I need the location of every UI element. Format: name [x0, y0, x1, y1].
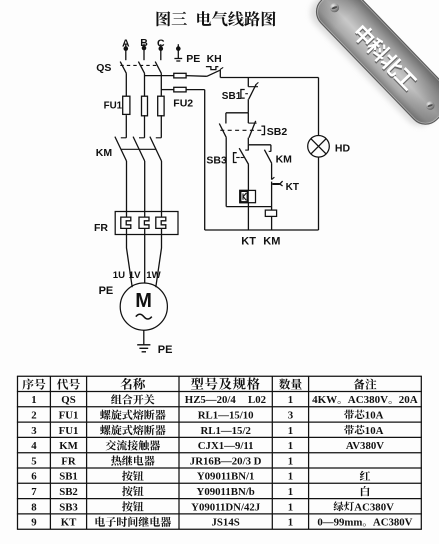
table header 数量 — [279, 379, 302, 390]
svg-text:1U: 1U — [113, 270, 125, 281]
wires FR to motor — [127, 228, 133, 287]
svg-text:QS: QS — [61, 394, 75, 406]
svg-text:HZ5—20/4: HZ5—20/4 — [185, 394, 237, 406]
row4 名称 交流接触器 — [106, 440, 161, 450]
row1 名称 组合开关 — [111, 394, 154, 404]
svg-text:C: C — [157, 38, 165, 50]
svg-text:M: M — [135, 290, 152, 312]
top rail wire — [220, 77, 318, 79]
svg-text:FU1: FU1 — [59, 425, 79, 437]
svg-text:QS: QS — [96, 62, 111, 74]
title 图三 电气线路图 — [157, 11, 276, 26]
wire SB2NC down to tee — [247, 138, 249, 145]
wire parallel split — [226, 112, 248, 114]
svg-text:5: 5 — [31, 455, 36, 467]
svg-text:HD: HD — [335, 142, 351, 154]
svg-text:Y09011BN/1: Y09011BN/1 — [197, 471, 255, 483]
svg-text:AV380V: AV380V — [346, 440, 384, 452]
badge screw bottom-right — [426, 101, 435, 110]
svg-text:AC380V: AC380V — [373, 517, 413, 529]
svg-text:7: 7 — [31, 486, 37, 498]
svg-text:SB2: SB2 — [267, 126, 288, 138]
svg-text:9: 9 — [31, 517, 37, 529]
svg-text:PE: PE — [186, 53, 200, 65]
table header 序号 — [22, 379, 45, 390]
svg-text:CJX1—9/11: CJX1—9/11 — [198, 440, 254, 452]
wire SB3 to KT coil — [247, 165, 249, 191]
FR heater elements — [121, 217, 166, 228]
SB2 linkage dashed — [220, 129, 261, 131]
svg-text:PE: PE — [158, 344, 173, 356]
button SB1 (NC stop) — [241, 78, 259, 100]
wire tee to KM aux — [248, 144, 271, 146]
wire KT coil to bottom rail — [247, 203, 249, 230]
wire SB1 to split — [247, 99, 249, 113]
svg-text:1: 1 — [288, 486, 293, 498]
wire FU2 to left rail — [186, 89, 205, 91]
left rail wire — [204, 90, 206, 230]
svg-text:AC380V: AC380V — [348, 394, 388, 406]
wire control tap from C — [161, 89, 174, 91]
row2 备注 — [344, 410, 364, 420]
wire phase C QS to FU1 — [160, 73, 162, 95]
badge plate 中科北工 — [304, 0, 439, 134]
svg-text:SB3: SB3 — [59, 501, 78, 513]
row7 备注 白 — [361, 486, 370, 496]
svg-text:FU1: FU1 — [59, 409, 79, 421]
row3 备注 — [344, 425, 364, 435]
thermal relay FR box — [115, 212, 178, 235]
contact KH (thermal NC) — [206, 67, 223, 78]
svg-text:3: 3 — [288, 409, 294, 421]
svg-text:KT: KT — [241, 236, 256, 248]
svg-text:B: B — [140, 37, 148, 49]
wire FU2 to KH — [186, 75, 207, 78]
badge screw top-left — [330, 3, 339, 12]
svg-text:JR16B—20/3 D: JR16B—20/3 D — [190, 455, 262, 467]
table header 名称 — [121, 378, 146, 390]
SB2 bracket — [261, 126, 264, 135]
svg-text:FU1: FU1 — [104, 101, 123, 112]
switch QS — [120, 62, 161, 74]
fuse FU2 lower — [174, 87, 186, 92]
table header 备注 — [354, 379, 377, 390]
wire KM coil to bottom rail — [271, 216, 273, 230]
svg-text:1: 1 — [288, 394, 293, 406]
lamp HD branch wire upper — [318, 78, 320, 136]
svg-text:SB3: SB3 — [206, 155, 227, 167]
wire KM to FR pole B — [144, 161, 146, 217]
wire control tap from B — [145, 75, 174, 77]
PE supply terminal with earth — [174, 44, 182, 61]
svg-text:FR: FR — [61, 455, 76, 467]
row7 名称 按钮 — [122, 486, 144, 496]
svg-text:FR: FR — [94, 222, 108, 234]
wire KM to FR pole C — [161, 161, 163, 217]
svg-text:KM: KM — [96, 147, 113, 159]
lamp HD branch wire lower — [318, 157, 320, 230]
svg-text:L02: L02 — [248, 394, 266, 406]
wire phase A QS to FU1 — [125, 73, 127, 95]
node A terminal — [124, 44, 129, 60]
button SB2 NO contact — [219, 113, 226, 138]
table grid — [17, 376, 422, 529]
svg-text:Y09011BN/b: Y09011BN/b — [197, 486, 255, 498]
svg-text:KM: KM — [263, 236, 280, 248]
button SB3 (NC) — [234, 145, 249, 165]
svg-text:A: A — [122, 38, 130, 50]
svg-text:1: 1 — [288, 455, 293, 467]
row5 名称 热继电器 — [111, 455, 155, 465]
contactor KM main contacts — [115, 115, 162, 161]
bottom rail wire — [205, 229, 319, 231]
svg-text:1: 1 — [31, 394, 36, 406]
svg-text:10A: 10A — [365, 425, 384, 437]
svg-text:RL1—15/2: RL1—15/2 — [200, 425, 250, 437]
svg-text:0—99mm: 0—99mm — [317, 517, 362, 529]
svg-text:6: 6 — [31, 471, 37, 483]
node C terminal — [159, 44, 164, 60]
row8 名称 按钮 — [122, 501, 144, 511]
svg-text:AC380V: AC380V — [354, 501, 394, 513]
coil KM — [265, 210, 276, 216]
table header 代号 — [57, 379, 80, 390]
row3 名称 螺旋式熔断器 — [100, 425, 166, 435]
svg-text:1: 1 — [288, 425, 293, 437]
motor tilde — [136, 314, 152, 319]
svg-text:4KW: 4KW — [312, 394, 337, 406]
wire KM to FR pole A — [126, 161, 128, 217]
junction wire — [226, 206, 271, 208]
motor earth — [137, 330, 150, 352]
contact KM auxiliary (NO) — [264, 145, 271, 164]
svg-text:2: 2 — [31, 409, 36, 421]
svg-text:1: 1 — [288, 471, 293, 483]
svg-text:PE: PE — [99, 285, 114, 297]
svg-text:JS14S: JS14S — [212, 517, 240, 529]
svg-text:KT: KT — [61, 517, 77, 529]
svg-text:SB1: SB1 — [222, 91, 242, 102]
svg-text:RL1—15/10: RL1—15/10 — [198, 409, 254, 421]
fuse FU1 pole C — [158, 96, 164, 116]
svg-text:KM: KM — [276, 153, 293, 165]
wire SB2NO down to junction — [225, 138, 227, 207]
row9 名称 电子时间继电器 — [96, 517, 172, 527]
wire phase B QS to FU1 — [144, 73, 146, 95]
svg-text:FU2: FU2 — [173, 97, 193, 109]
row6 备注 红 — [360, 471, 370, 481]
svg-text:1: 1 — [288, 501, 293, 513]
svg-text:8: 8 — [31, 501, 37, 513]
fuse FU1 pole A — [123, 96, 130, 116]
table header 型号及规格 — [191, 377, 260, 389]
svg-text:1: 1 — [288, 440, 293, 452]
motor M — [120, 283, 167, 330]
svg-text:20A: 20A — [399, 394, 418, 406]
node B terminal — [142, 44, 147, 61]
svg-text:SB1: SB1 — [59, 471, 78, 483]
button SB2 NC contact — [248, 113, 256, 138]
svg-text:10A: 10A — [365, 409, 384, 421]
relay coil KT box — [240, 190, 256, 202]
lamp HD — [308, 136, 330, 158]
contact KT delayed — [272, 163, 283, 210]
svg-text:3: 3 — [31, 425, 37, 437]
svg-text:4: 4 — [31, 440, 37, 452]
row6 名称 按钮 — [122, 471, 144, 481]
row8 备注 — [334, 501, 354, 511]
svg-text:Y09011DN/42J: Y09011DN/42J — [191, 501, 261, 513]
svg-text:KM: KM — [59, 440, 78, 452]
fuse FU2 upper — [174, 73, 186, 78]
fuse FU1 pole B — [142, 96, 148, 116]
svg-text:KH: KH — [207, 53, 222, 65]
svg-text:1: 1 — [288, 517, 293, 529]
svg-text:1W: 1W — [146, 270, 161, 281]
svg-text:SB2: SB2 — [59, 486, 78, 498]
svg-text:KT: KT — [286, 182, 299, 193]
svg-text:1V: 1V — [129, 270, 141, 281]
row2 名称 螺旋式熔断器 — [100, 410, 166, 420]
